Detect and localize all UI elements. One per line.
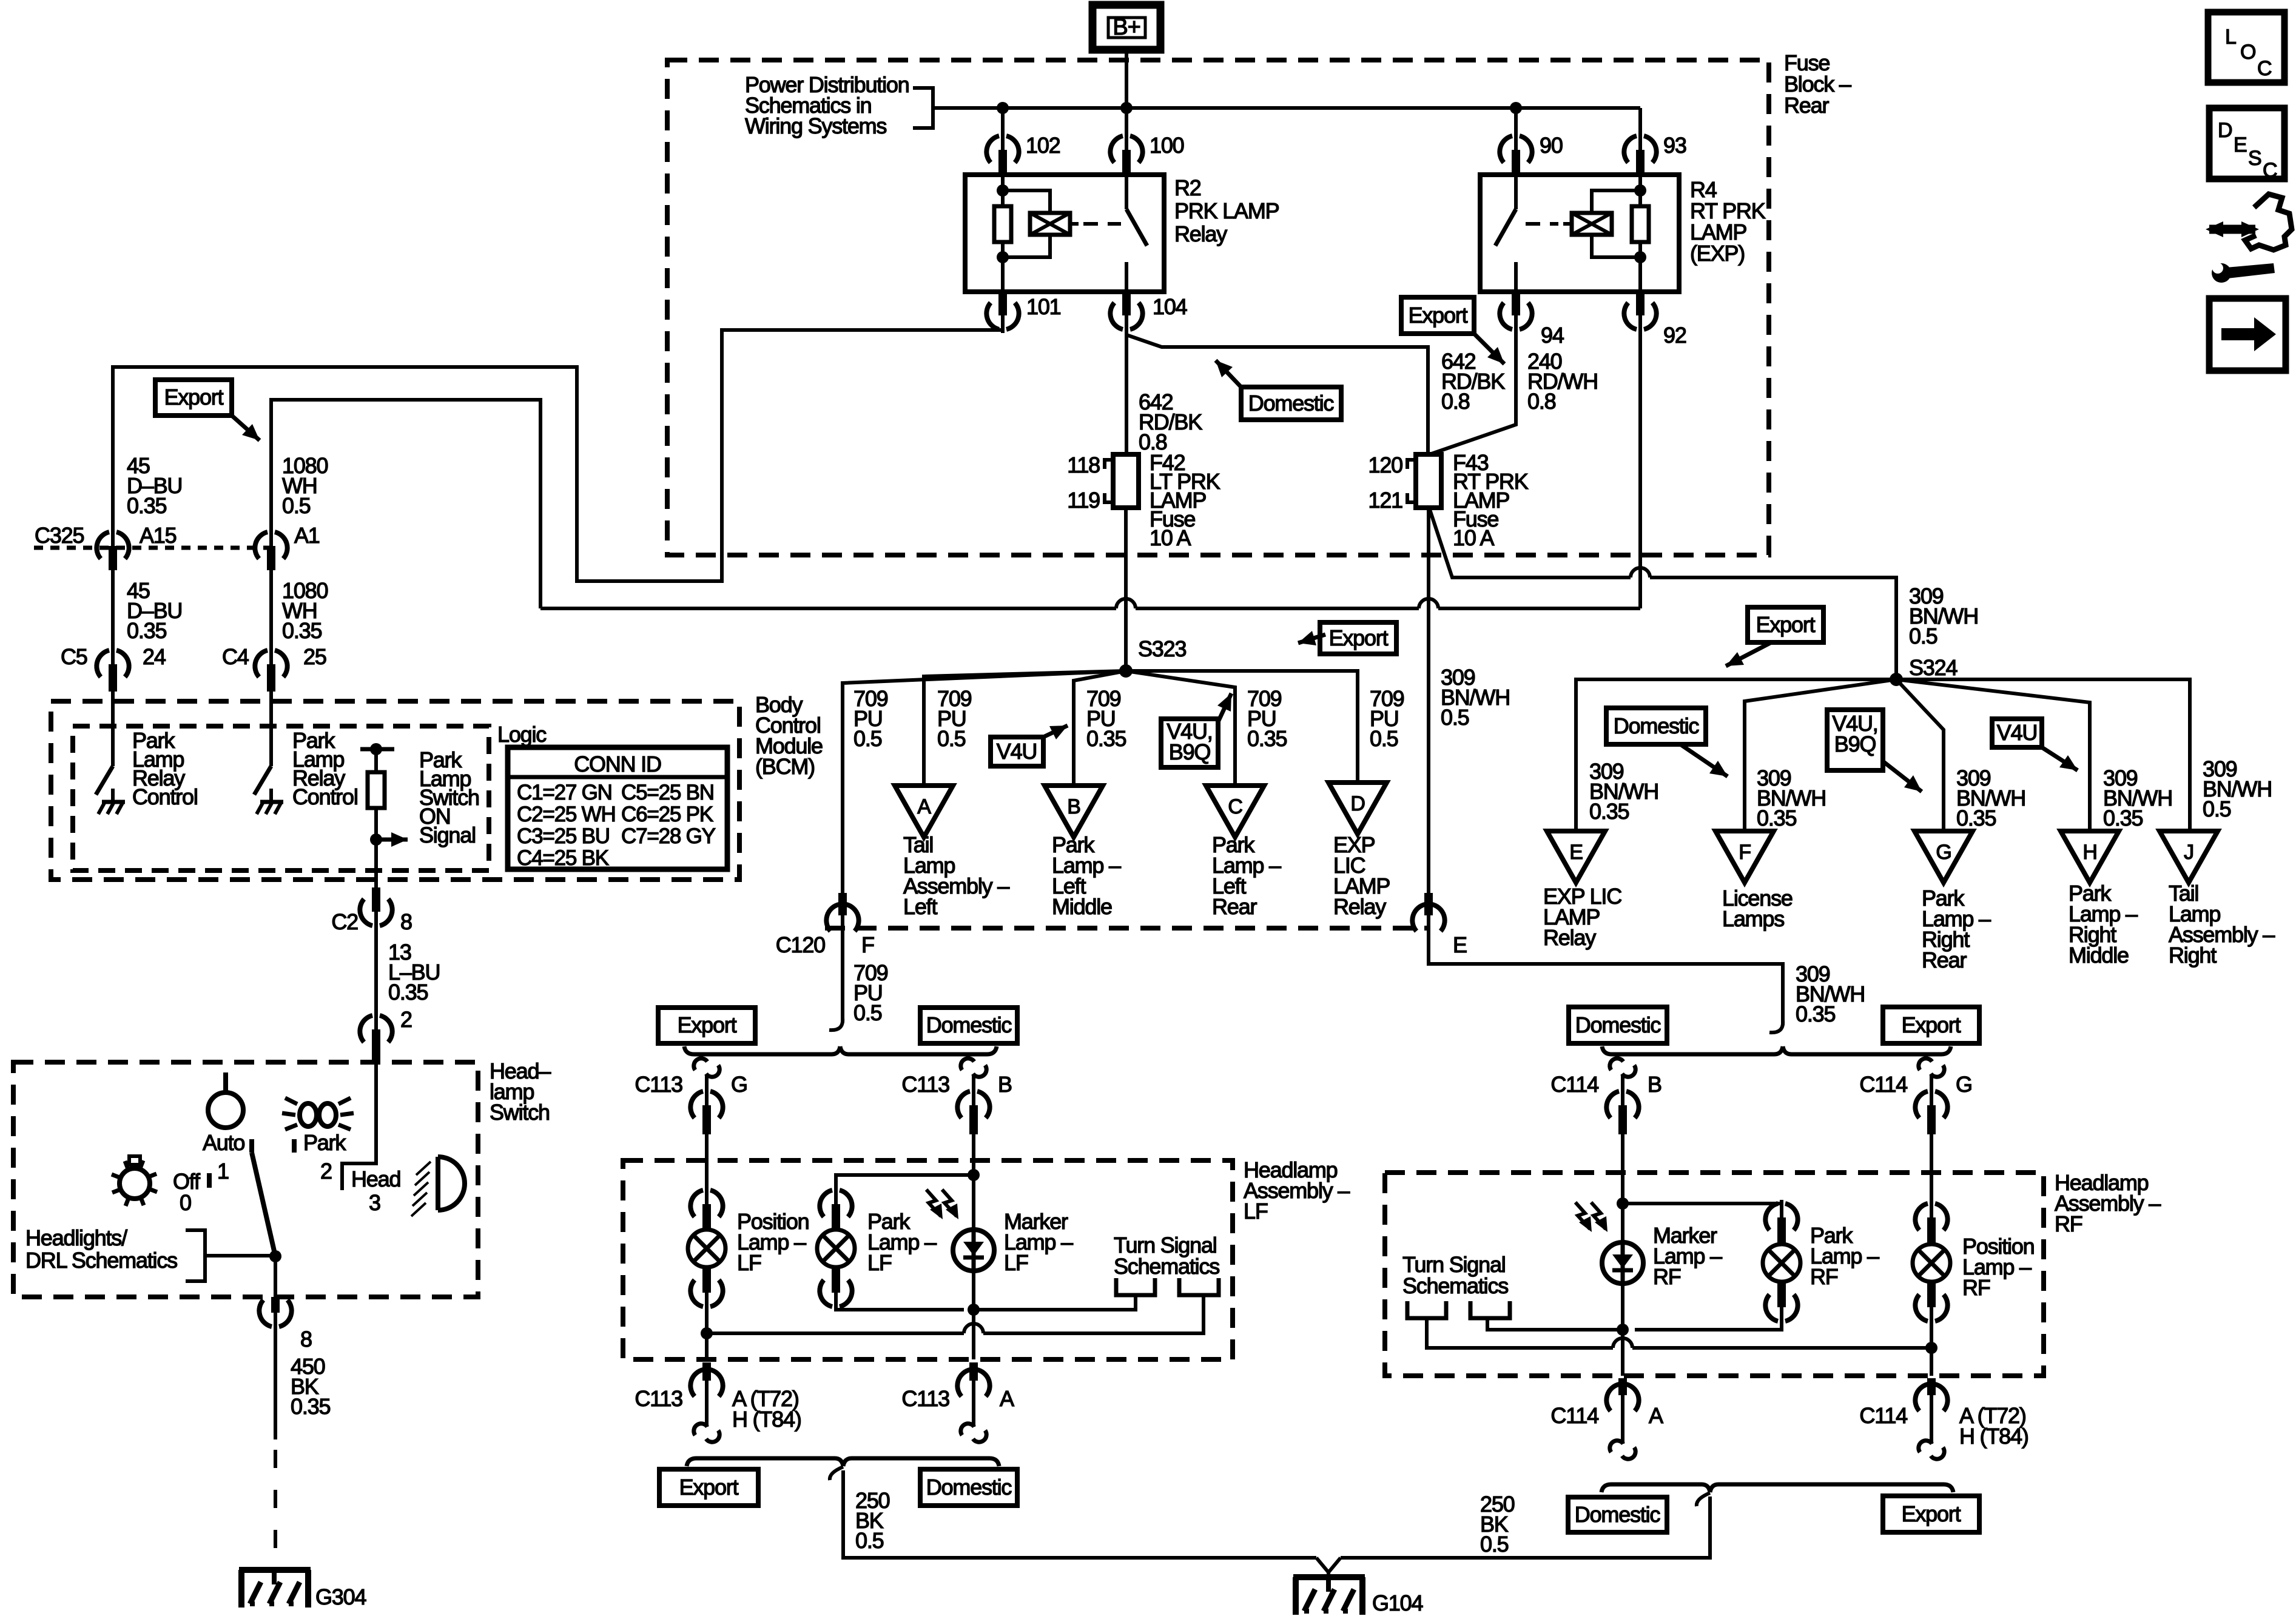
relay R4 switch [1514, 175, 1518, 209]
node LF marker junction [968, 1304, 980, 1316]
svg-text:0.35: 0.35 [1247, 726, 1287, 751]
svg-text:Relay: Relay [1333, 894, 1386, 919]
svg-text:B9Q: B9Q [1169, 739, 1211, 764]
ground G304 [239, 1567, 311, 1573]
wire 1080 WH long run [540, 607, 1116, 610]
Domestic flag (S324) [1606, 708, 1706, 744]
svg-text:B9Q: B9Q [1834, 732, 1876, 756]
svg-text:Relay: Relay [1543, 925, 1596, 950]
svg-text:A: A [1000, 1386, 1014, 1411]
svg-text:0.35: 0.35 [1956, 806, 1996, 830]
svg-text:0.5: 0.5 [1441, 705, 1469, 730]
Export flag (C114 G) [1883, 1007, 1979, 1043]
BCM C120 dashed edge [825, 926, 1429, 931]
relay R2 linkage [1070, 222, 1079, 226]
headlamp switch wire to head contact [342, 1065, 376, 1190]
connector E (EXP LIC lamp relay) [1547, 831, 1605, 883]
svg-text:1: 1 [217, 1159, 229, 1183]
svg-text:S324: S324 [1909, 655, 1957, 680]
svg-text:O: O [2240, 41, 2255, 64]
svg-text:2: 2 [400, 1007, 412, 1032]
svg-text:Lamps: Lamps [1722, 906, 1784, 931]
wire LF park/marker to turn signal [836, 1298, 964, 1310]
ground G104 [1316, 1558, 1341, 1572]
svg-text:93: 93 [1663, 133, 1686, 158]
svg-text:H: H [2082, 841, 2096, 864]
svg-text:Export: Export [1329, 625, 1389, 650]
node RF marker junction [1617, 1324, 1629, 1336]
wire C114 G to position lamp [1930, 1134, 1933, 1210]
svg-text:0.5: 0.5 [282, 493, 311, 518]
svg-text:LF: LF [867, 1250, 892, 1275]
park position symbol [300, 1103, 317, 1126]
wire 104 to F42 [1125, 324, 1128, 454]
node R4 coil bottom [1634, 251, 1646, 263]
svg-text:Domestic: Domestic [1614, 713, 1700, 738]
svg-text:C325: C325 [35, 523, 84, 548]
connector C114 A [1606, 1384, 1619, 1411]
svg-text:Logic: Logic [497, 722, 547, 747]
Export flag (C113 G) [658, 1008, 755, 1043]
wire F43 to S324 [1429, 508, 1631, 577]
wire S323 to C120 F [843, 671, 1126, 893]
park lamp relay control switch 2 [269, 692, 273, 766]
svg-text:A15: A15 [140, 523, 177, 548]
svg-text:C114: C114 [1859, 1072, 1907, 1097]
wire S323 to C [1126, 671, 1235, 786]
svg-text:Switch: Switch [490, 1100, 550, 1125]
svg-text:C4=25 BK: C4=25 BK [517, 846, 609, 870]
svg-text:Signal: Signal [419, 823, 476, 847]
connector pin 90 [1500, 136, 1512, 163]
svg-text:0.35: 0.35 [127, 618, 166, 643]
svg-text:Export: Export [164, 385, 224, 409]
connector J (tail lamp assembly right) [2160, 831, 2218, 883]
position lamp LF [690, 1190, 703, 1217]
svg-text:119: 119 [1067, 488, 1100, 513]
node R2 coil bottom [997, 251, 1009, 263]
svg-text:C113: C113 [635, 1072, 682, 1097]
svg-text:B: B [1648, 1072, 1661, 1097]
svg-text:C6=25 PK: C6=25 PK [621, 803, 713, 826]
svg-text:0.5: 0.5 [855, 1528, 884, 1553]
wire park branch RF [1623, 1204, 1782, 1210]
svg-text:0.35: 0.35 [282, 618, 322, 643]
connector C114 A(T72)/H(T84) [1915, 1384, 1928, 1411]
svg-text:A1: A1 [294, 523, 320, 548]
wire 101 to C325 A15 [113, 324, 1003, 581]
svg-text:B: B [1067, 795, 1080, 818]
marker lamp RF [1602, 1242, 1643, 1284]
svg-text:0.35: 0.35 [1796, 1002, 1835, 1026]
svg-text:0.35: 0.35 [1589, 799, 1629, 824]
park lamp relay control switch 1 [111, 692, 115, 766]
svg-text:Schematics: Schematics [1402, 1273, 1508, 1298]
connector D (EXP LIC lamp relay) [1328, 783, 1387, 834]
headlamp switch ground wire [274, 1326, 277, 1439]
ground (BCM internal) 2 [269, 789, 273, 802]
V4U,B9Q flag (G) [1827, 710, 1883, 770]
brace LF ground [687, 1458, 843, 1466]
wire S323 to A [924, 671, 1126, 786]
wire park branch LF [836, 1175, 974, 1197]
wire RF marker down [1621, 1330, 1624, 1376]
svg-text:(BCM): (BCM) [755, 754, 815, 779]
svg-text:3: 3 [369, 1190, 380, 1215]
svg-text:Control: Control [132, 784, 198, 809]
svg-text:H (T84): H (T84) [732, 1407, 801, 1432]
svg-text:Wiring Systems: Wiring Systems [745, 113, 886, 138]
svg-text:C: C [2257, 57, 2272, 80]
wire 92 drop [1638, 324, 1642, 608]
BCM logic dashed box [73, 726, 489, 870]
svg-text:C113: C113 [901, 1386, 949, 1411]
wire power bus [933, 106, 1640, 110]
svg-text:Rear: Rear [1922, 948, 1967, 972]
park lamp switch ON signal resistor [360, 747, 394, 752]
svg-text:104: 104 [1153, 294, 1187, 319]
wire A1 to C4 [269, 570, 273, 654]
head position symbol [438, 1157, 465, 1210]
svg-text:V4U: V4U [1997, 720, 2037, 745]
fuse F43 [1416, 454, 1441, 508]
svg-text:0.35: 0.35 [1086, 726, 1126, 751]
headlamp assembly LF dashed box [623, 1160, 1233, 1359]
svg-text:Export: Export [1409, 303, 1468, 328]
connector C114 B [1610, 1059, 1623, 1070]
LOC icon [2208, 12, 2284, 82]
node LF position junction [701, 1327, 713, 1339]
wire F43 to BCM E [1427, 508, 1430, 893]
svg-text:G: G [1956, 1072, 1972, 1097]
wire pin 102 [1001, 108, 1005, 140]
svg-text:Export: Export [1756, 612, 1816, 637]
node bus/B+ [1120, 102, 1133, 114]
svg-text:0.5: 0.5 [1909, 624, 1937, 648]
svg-text:0.35: 0.35 [388, 980, 428, 1005]
svg-text:C113: C113 [635, 1386, 682, 1411]
Domestic flag (fuse area) [1241, 387, 1341, 420]
wire C325 A1 to long bus [271, 400, 540, 608]
node headlamp switch common [269, 1250, 281, 1262]
svg-text:90: 90 [1540, 133, 1563, 158]
svg-text:E: E [2234, 133, 2247, 157]
wire 94 to F43 (export) [1430, 324, 1516, 454]
svg-text:C7=28 GY: C7=28 GY [621, 824, 716, 848]
svg-text:0.5: 0.5 [853, 1000, 882, 1025]
Export flag (pin 94) [1401, 297, 1474, 334]
park lamp switch ON signal arrow [376, 838, 408, 842]
svg-text:120: 120 [1369, 453, 1403, 477]
svg-text:C1=27 GN: C1=27 GN [517, 781, 612, 804]
marker lamp LF [953, 1230, 994, 1271]
svg-text:Auto: Auto [203, 1130, 244, 1155]
splice S324 [1890, 673, 1903, 686]
svg-text:D: D [2218, 119, 2232, 142]
connector headlamp switch pin 2 [360, 1015, 372, 1042]
svg-text:Schematics: Schematics [1114, 1254, 1219, 1279]
connector H (park lamp right middle) [2061, 831, 2119, 883]
brace RF ground [1601, 1484, 1710, 1492]
svg-text:24: 24 [143, 644, 166, 669]
svg-text:Park: Park [303, 1130, 346, 1155]
svg-text:Rear: Rear [1212, 894, 1257, 919]
connector C4 pin 25 [255, 650, 268, 677]
svg-text:Right: Right [2169, 943, 2217, 968]
connector pin 93 [1624, 136, 1637, 163]
svg-text:R2: R2 [1174, 175, 1201, 200]
svg-text:0.35: 0.35 [2103, 806, 2143, 830]
svg-text:Export: Export [679, 1475, 739, 1500]
svg-text:100: 100 [1150, 133, 1184, 158]
node park lamp switch signal [370, 833, 382, 846]
svg-text:Domestic: Domestic [926, 1475, 1012, 1500]
Export flag (S324) [1748, 607, 1823, 642]
svg-text:Domestic: Domestic [1248, 391, 1335, 416]
connector C (park lamp left rear) [1206, 786, 1264, 837]
svg-text:0.8: 0.8 [1527, 389, 1556, 414]
svg-text:C114: C114 [1550, 1403, 1598, 1428]
connector C113 G [694, 1059, 707, 1070]
wire B+ stem [1125, 50, 1128, 108]
svg-text:0: 0 [180, 1190, 191, 1215]
headlamp switch blade [249, 1139, 254, 1153]
wire S324 to E triangle [1576, 679, 1896, 831]
svg-text:0.5: 0.5 [2203, 796, 2231, 821]
V4U flag (H) [1992, 719, 2042, 747]
svg-text:102: 102 [1026, 133, 1060, 158]
node bus/90 [1510, 102, 1522, 114]
svg-text:Export: Export [1902, 1012, 1961, 1037]
svg-text:G104: G104 [1372, 1591, 1422, 1615]
wire C120 F down [841, 928, 844, 1023]
connector A (tail lamp assembly left) [895, 786, 953, 837]
connector headlamp switch pin 8 [259, 1300, 272, 1327]
wire C2 to headlamp switch [374, 920, 378, 1018]
svg-text:E: E [1453, 932, 1467, 957]
svg-text:Export: Export [1902, 1501, 1961, 1526]
wire S324 to F triangle [1745, 679, 1896, 831]
wire 104 to F43 (domestic) [1126, 335, 1428, 454]
wire C113 G to position lamp [705, 1134, 709, 1197]
splice S323 [1119, 664, 1133, 678]
svg-text:C113: C113 [901, 1072, 949, 1097]
headlamp assembly RF dashed box [1385, 1173, 2044, 1376]
wire RF park/marker to turn signal [1635, 1313, 1782, 1330]
off position symbol [120, 1168, 150, 1199]
connector C325 line [34, 546, 269, 550]
svg-text:121: 121 [1369, 488, 1403, 513]
connector G (park lamp right rear) [1914, 831, 1973, 883]
wire RF ground 250 BK [1697, 1493, 1710, 1506]
connector C120 F [826, 904, 839, 931]
arrow icon [2209, 298, 2286, 371]
wire C114 B to marker lamp [1621, 1134, 1624, 1204]
connector C113 A [957, 1370, 970, 1396]
svg-text:Head: Head [351, 1167, 400, 1191]
wire switch common down [274, 1256, 277, 1297]
svg-text:8: 8 [300, 1327, 312, 1352]
Domestic flag (C114 B) [1569, 1007, 1667, 1043]
wire LF position to turn signal [707, 1298, 964, 1333]
svg-text:Middle: Middle [2069, 943, 2129, 968]
svg-text:LF: LF [1004, 1250, 1028, 1275]
svg-text:Domestic: Domestic [1575, 1502, 1661, 1527]
fuse F42 [1113, 454, 1139, 508]
brace LF feed [684, 1046, 840, 1054]
connector pin 92 [1624, 303, 1637, 329]
Domestic flag (LF ground) [920, 1469, 1017, 1506]
connector C325 A15 [96, 532, 109, 559]
connector C325 A1 [255, 532, 268, 559]
svg-text:2: 2 [320, 1159, 332, 1183]
svg-text:B: B [998, 1072, 1012, 1097]
svg-text:C5=25 BN: C5=25 BN [621, 781, 714, 804]
svg-text:Middle: Middle [1052, 894, 1112, 919]
svg-text:C114: C114 [1550, 1072, 1598, 1097]
svg-text:94: 94 [1541, 323, 1564, 348]
svg-text:0.35: 0.35 [127, 493, 166, 518]
Export flag (LF ground) [659, 1469, 758, 1506]
svg-text:LF: LF [1244, 1199, 1268, 1224]
Fuse Block - Rear dashed box [667, 60, 1769, 555]
svg-text:G: G [731, 1072, 747, 1097]
svg-text:RF: RF [1653, 1264, 1681, 1289]
relay R2 switch [1125, 175, 1128, 209]
headlights/DRL reference bracket [186, 1230, 205, 1281]
wire LF position down [705, 1333, 709, 1359]
svg-text:G: G [1936, 841, 1951, 864]
svg-text:0.5: 0.5 [1370, 726, 1398, 751]
relay R2 coil resistor [1001, 175, 1005, 206]
svg-text:S323: S323 [1138, 636, 1186, 661]
connector C120 E [1412, 904, 1425, 931]
Power Distribution reference bracket [913, 88, 933, 128]
svg-text:CONN ID: CONN ID [574, 752, 661, 776]
svg-text:L: L [2225, 25, 2236, 49]
svg-text:F: F [1739, 841, 1751, 864]
svg-text:Control: Control [292, 784, 358, 809]
connector pin 104 [1110, 303, 1123, 329]
auto position symbol [208, 1092, 243, 1128]
wire pin 90 [1514, 108, 1518, 140]
power feed B+ [1092, 5, 1160, 50]
svg-text:0.35: 0.35 [1757, 806, 1796, 830]
svg-text:0.35: 0.35 [291, 1394, 330, 1419]
svg-text:RF: RF [1810, 1264, 1838, 1289]
wire BCM to C2 [374, 880, 378, 897]
wire F42 to S323 [1124, 508, 1128, 671]
wire pin 93 [1638, 108, 1642, 140]
svg-text:10 A: 10 A [1453, 525, 1494, 550]
Export flag (RF ground) [1883, 1496, 1979, 1532]
svg-text:C: C [1228, 795, 1242, 818]
svg-text:Domestic: Domestic [1575, 1012, 1661, 1037]
svg-text:G304: G304 [315, 1584, 366, 1609]
svg-text:H (T84): H (T84) [1959, 1424, 2028, 1449]
svg-text:DRL Schematics: DRL Schematics [25, 1248, 177, 1273]
wire RF position down [1930, 1348, 1933, 1376]
svg-text:C2: C2 [331, 909, 358, 934]
wire pin 100 [1125, 108, 1128, 140]
V4U,B9Q flag (C) [1161, 719, 1218, 767]
relay R4 linkage [1563, 222, 1572, 226]
svg-text:0.5: 0.5 [1480, 1532, 1509, 1557]
wire E to RF headlamp [1429, 928, 1783, 1025]
svg-text:92: 92 [1663, 323, 1686, 348]
connector pin 94 [1500, 303, 1512, 329]
node RF marker/park [1617, 1197, 1629, 1210]
position lamp RF [1915, 1204, 1928, 1230]
svg-text:C5: C5 [61, 644, 87, 669]
connector pin 100 [1110, 136, 1123, 163]
svg-text:Export: Export [678, 1012, 737, 1037]
V4U flag (B) [991, 737, 1043, 766]
CONN ID table [508, 747, 727, 869]
Export flag (left) [155, 380, 232, 416]
connector B (park lamp left middle) [1045, 786, 1103, 837]
svg-text:0.8: 0.8 [1441, 389, 1470, 414]
connector C113 A(T72)/H(T84) [690, 1370, 703, 1396]
svg-text:F: F [861, 932, 874, 957]
relay R4 box [1480, 175, 1679, 292]
node R4 coil top [1634, 184, 1646, 197]
svg-text:S: S [2248, 147, 2261, 170]
connector C113 B [961, 1059, 974, 1070]
svg-text:0.5: 0.5 [937, 726, 966, 751]
svg-text:C: C [2263, 159, 2277, 182]
wire S324 to H triangle [1896, 679, 2090, 831]
svg-text:J: J [2184, 841, 2193, 864]
svg-text:101: 101 [1026, 294, 1061, 319]
relay R4 coil [1592, 190, 1640, 213]
connector C5 pin 24 [96, 650, 109, 677]
wire S323 to D [1126, 671, 1358, 783]
node R2 coil top [997, 184, 1009, 197]
wire RF position to turn signal [1632, 1313, 1931, 1348]
Domestic flag (C113 B) [920, 1008, 1017, 1043]
wire A15 to C5 [111, 570, 115, 654]
node LF marker/park [968, 1169, 980, 1181]
svg-text:8: 8 [400, 909, 412, 934]
svg-text:RF: RF [2055, 1211, 2082, 1236]
node RF position junction [1925, 1342, 1937, 1354]
svg-text:Domestic: Domestic [926, 1012, 1012, 1037]
svg-text:0.5: 0.5 [853, 726, 882, 751]
connector C2 pin 8 [360, 899, 372, 926]
wire C113 B to marker lamp [972, 1134, 975, 1175]
connector F (license lamps) [1715, 831, 1774, 883]
svg-text:PRK LAMP: PRK LAMP [1174, 198, 1279, 223]
svg-text:C2=25 WH: C2=25 WH [517, 803, 616, 826]
ground (BCM internal) 1 [111, 789, 115, 802]
Export flag (S323) [1320, 622, 1396, 654]
svg-text:C120: C120 [776, 932, 825, 957]
svg-text:Relay: Relay [1174, 221, 1227, 246]
relay R4 coil resistor [1638, 175, 1642, 206]
connector pin 102 [986, 136, 999, 163]
headlamp switch dashed box [13, 1062, 478, 1297]
park lamp RF [1765, 1204, 1778, 1230]
brace RF feed [1602, 1046, 1783, 1054]
connector pin 101 [986, 303, 999, 329]
Domestic flag (RF ground) [1568, 1497, 1667, 1532]
svg-text:Rear: Rear [1784, 93, 1829, 118]
svg-text:118: 118 [1067, 453, 1100, 477]
svg-text:Headlights/: Headlights/ [25, 1225, 127, 1250]
BCM dashed box [51, 701, 739, 880]
wire S324 to G triangle [1896, 679, 1944, 831]
